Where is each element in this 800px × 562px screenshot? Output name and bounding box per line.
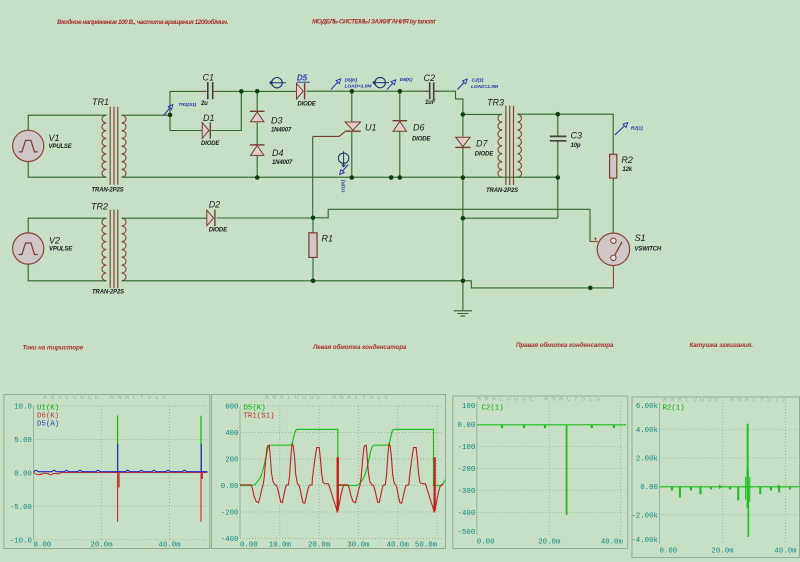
diode D6 (393, 121, 432, 143)
svg-text:40.0m: 40.0m (774, 548, 797, 556)
svg-text:U1(K): U1(K) (37, 405, 59, 413)
svg-text:VPULSE: VPULSE (49, 247, 73, 253)
svg-text:D5(A): D5(A) (37, 421, 59, 429)
voltage probe C2(1) with load (458, 77, 499, 90)
svg-text:VPULSE: VPULSE (49, 144, 73, 150)
svg-text:D6(K): D6(K) (400, 77, 413, 83)
junction (398, 89, 403, 94)
wire R1 node step up to S1 plus terminal (313, 209, 590, 241)
ground (454, 311, 472, 316)
svg-text:D4: D4 (272, 148, 284, 158)
svg-text:1N4007: 1N4007 (271, 127, 292, 133)
diode D5 (highlighted designator) (297, 74, 317, 108)
junction (556, 175, 561, 180)
svg-text:0.00: 0.00 (34, 542, 52, 550)
svg-text:LOAD=1.0M: LOAD=1.0M (345, 83, 373, 89)
svg-text:D5(K): D5(K) (345, 77, 358, 83)
svg-text:40.0m: 40.0m (601, 539, 624, 547)
wire D1 branch: down from TR1 node, through D1 to C1 right (170, 91, 241, 130)
resistor R2 value 12k (610, 154, 633, 178)
voltage probe TR1(S1) (164, 102, 197, 116)
svg-text:-400: -400 (221, 536, 239, 544)
svg-text:0.00: 0.00 (221, 483, 239, 491)
svg-text:-200: -200 (458, 466, 476, 474)
svg-text:400: 400 (225, 430, 238, 438)
svg-text:TR2: TR2 (91, 202, 108, 212)
svg-text:TR1(S1): TR1(S1) (244, 413, 275, 421)
svg-text:R2: R2 (621, 155, 633, 165)
svg-text:10.0m: 10.0m (269, 542, 292, 550)
svg-text:+: + (594, 236, 598, 243)
plot 4: R2(1) waveform (632, 397, 800, 558)
svg-text:TR3: TR3 (487, 98, 504, 108)
wire C1 right to D5 anode (top rail) (219, 90, 297, 92)
svg-text:5.00: 5.00 (14, 437, 32, 445)
svg-text:20.0m: 20.0m (308, 542, 331, 550)
svg-text:C3: C3 (571, 131, 583, 141)
svg-text:U1(K): U1(K) (341, 179, 347, 192)
wire D2 cathode to R1 node (217, 217, 314, 219)
svg-text:0.00: 0.00 (477, 539, 495, 547)
junction (461, 112, 466, 117)
wire D7 verticals (462, 114, 464, 177)
wire TR2 primary top from V2 (28, 218, 106, 233)
svg-text:DIODE: DIODE (297, 101, 316, 107)
voltage source V1 (VPULSE) (13, 130, 73, 161)
plot 1: thyristor currents U1(K) D6(K) D5(A) (4, 395, 210, 549)
svg-text:200: 200 (225, 457, 238, 465)
wire TR1 secondary top to node with probe, up to C1 rail (122, 91, 202, 115)
svg-text:ANALOGUE ANALYSIS: ANALOGUE ANALYSIS (265, 394, 392, 402)
svg-text:DIODE: DIODE (412, 136, 431, 142)
svg-text:V1: V1 (49, 133, 60, 143)
svg-text:1uF: 1uF (425, 100, 436, 106)
capacitor C3 value 10p (550, 131, 582, 150)
wire S1 bottom contact down (612, 263, 614, 288)
svg-text:-4.00k: -4.00k (631, 537, 658, 545)
junction (461, 279, 466, 284)
junction (350, 175, 355, 180)
junction (311, 279, 316, 284)
svg-text:20.0m: 20.0m (711, 548, 734, 556)
wire lower rail y218 from ground vertical to TR3 drop (463, 217, 558, 219)
svg-text:Токи на тиристоре: Токи на тиристоре (23, 344, 84, 351)
resistor R1 (309, 233, 333, 258)
wire R2 bottom to S1 top contact (612, 178, 614, 236)
svg-text:-400: -400 (458, 510, 476, 518)
diode D3 value 1N4007 (250, 111, 292, 133)
svg-text:100: 100 (462, 403, 475, 411)
svg-text:D2: D2 (209, 200, 221, 210)
wire C3 verticals (557, 114, 559, 177)
svg-text:0.00: 0.00 (458, 422, 476, 430)
transformer TR2 (91, 202, 126, 296)
svg-text:TRAN-2P2S: TRAN-2P2S (92, 188, 124, 194)
capacitor C2 value 1uF (424, 73, 440, 106)
diode D2 (207, 200, 228, 234)
wire C2 right with jog down to TR3 node (434, 91, 463, 114)
junction (239, 89, 244, 94)
svg-text:Правая обмотка конденсатора: Правая обмотка конденсатора (516, 341, 614, 349)
junction (556, 112, 561, 117)
svg-text:40.0m: 40.0m (158, 542, 181, 550)
svg-text:D5: D5 (297, 74, 308, 83)
svg-text:4.00k: 4.00k (636, 427, 659, 435)
svg-text:ANALOGUE ANALYSIS: ANALOGUE ANALYSIS (43, 394, 170, 402)
svg-text:ANALOGUE ANALYSIS: ANALOGUE ANALYSIS (663, 397, 790, 405)
svg-text:2u: 2u (200, 101, 208, 107)
junction (255, 175, 260, 180)
svg-text:VSWITCH: VSWITCH (635, 246, 662, 252)
svg-text:D3: D3 (271, 116, 283, 126)
svg-text:D6: D6 (413, 123, 425, 133)
svg-text:D6(K): D6(K) (37, 413, 59, 421)
svg-text:10.0: 10.0 (14, 404, 32, 412)
wire ground vertical through junctions (462, 178, 464, 311)
transformer TR3 (486, 98, 521, 195)
svg-text:Катушка зажигания.: Катушка зажигания. (690, 342, 754, 349)
wire TR2 primary bottom from V2 (28, 264, 106, 281)
svg-text:Левая обмотка конденсатора: Левая обмотка конденсатора (312, 343, 407, 351)
junction (461, 216, 466, 221)
svg-text:TRAN-2P2S: TRAN-2P2S (92, 290, 124, 296)
svg-text:-300: -300 (458, 488, 476, 496)
svg-text:C1: C1 (203, 73, 215, 83)
svg-text:C2(1): C2(1) (482, 405, 504, 413)
svg-text:-10.0: -10.0 (10, 537, 32, 545)
voltage probe D5(K) with load (331, 77, 372, 89)
svg-text:2.00k: 2.00k (636, 455, 659, 463)
current probe at D6 node (373, 77, 389, 87)
junction (168, 113, 173, 118)
wire D5 cathode to U1 anode node to D6 node (307, 90, 430, 92)
voltage probe R2(1) (615, 123, 643, 135)
plot 2: D5(K) and TR1(S1) waveforms (211, 395, 445, 549)
wire TR2 secondary top to D2 (122, 217, 207, 219)
wire TR2 secondary bottom rail (122, 280, 463, 282)
svg-text:TR1: TR1 (92, 97, 109, 107)
svg-text:-100: -100 (458, 444, 476, 452)
wire U1 anode / cathode verticals (351, 91, 353, 177)
svg-text:-200: -200 (221, 510, 239, 518)
diode D1 (201, 113, 220, 147)
svg-text:0.00: 0.00 (14, 471, 32, 479)
svg-text:R2(1): R2(1) (631, 126, 643, 132)
svg-text:12k: 12k (622, 167, 632, 173)
svg-text:LOAD=1.0M: LOAD=1.0M (471, 84, 499, 90)
svg-text:R2(1): R2(1) (663, 405, 685, 413)
svg-text:0.00: 0.00 (660, 548, 678, 556)
svg-text:D1: D1 (203, 113, 215, 123)
voltage probe D6(K) (387, 77, 413, 90)
svg-text:TRAN-2P2S: TRAN-2P2S (486, 188, 518, 194)
svg-text:-2.00k: -2.00k (631, 512, 658, 520)
voltage source V2 (VPULSE) (13, 233, 74, 264)
transformer TR1 (92, 97, 127, 194)
wire V1 top to TR1 primary (28, 115, 106, 130)
wire TR3 bottom right to lower rail at y218 (557, 178, 559, 219)
junction (311, 216, 316, 221)
diode D7 (455, 137, 494, 157)
svg-text:50.0m: 50.0m (415, 542, 438, 550)
svg-text:TR1(S1): TR1(S1) (178, 102, 196, 108)
junction (461, 175, 466, 180)
junction (398, 175, 403, 180)
svg-text:6.00k: 6.00k (636, 403, 659, 411)
svg-text:V2: V2 (49, 236, 60, 246)
junction (350, 89, 355, 94)
junction (588, 286, 593, 291)
junction (255, 89, 260, 94)
wire D6 verticals (399, 91, 401, 177)
svg-text:U1: U1 (365, 123, 377, 133)
svg-text:DIODE: DIODE (475, 151, 494, 157)
diode D4 value 1N4007 (250, 145, 293, 166)
switch S1 (VSWITCH) (590, 233, 662, 266)
svg-text:0.00: 0.00 (640, 484, 658, 492)
thyristor U1 (313, 122, 377, 136)
svg-text:600: 600 (225, 404, 238, 412)
svg-text:МОДЕЛЬ СИСТЕМЫ ЗАЖИГАНИЯ by t: МОДЕЛЬ СИСТЕМЫ ЗАЖИГАНИЯ by tancist (312, 19, 436, 26)
svg-text:40.0m: 40.0m (387, 542, 410, 550)
wire V1 bottom to TR1 primary (28, 162, 106, 178)
svg-text:ANALOGUE ANALYSIS: ANALOGUE ANALYSIS (477, 396, 604, 404)
wire TR3 top-right to R2 branch (517, 114, 613, 154)
junction (389, 175, 394, 180)
current probe D5(A) (270, 78, 286, 88)
svg-text:DIODE: DIODE (201, 141, 220, 147)
wire R1 vertical pins (312, 218, 314, 281)
svg-text:0.00: 0.00 (240, 542, 258, 550)
svg-text:-500: -500 (458, 529, 476, 537)
svg-text:Входное напряжение 100 В., час: Входное напряжение 100 В., частота враще… (57, 18, 229, 26)
svg-text:C2(1): C2(1) (472, 77, 484, 83)
svg-text:10p: 10p (571, 143, 581, 149)
svg-text:20.0m: 20.0m (538, 539, 561, 547)
current probe U1(K) vertical with probe arrow and rotated label (338, 151, 348, 192)
svg-text:S1: S1 (635, 233, 646, 243)
svg-text:1N4007: 1N4007 (272, 160, 293, 166)
wire D3/D4 chain verticals (256, 91, 258, 177)
wire U1 gate down to R1 node (312, 136, 314, 217)
svg-text:30.0m: 30.0m (347, 542, 370, 550)
capacitor C1 (200, 73, 219, 107)
svg-text:20.0m: 20.0m (90, 542, 113, 550)
svg-text:D5(K): D5(K) (244, 405, 266, 413)
wire TR3 top-left pin (463, 113, 502, 115)
wire bottom rail step down to S1 bottom (463, 281, 614, 288)
svg-text:D7: D7 (476, 139, 488, 149)
wire TR1 secondary bottom to bottom rail (122, 176, 558, 178)
svg-text:C2: C2 (424, 73, 436, 83)
svg-text:R1: R1 (322, 234, 334, 244)
svg-text:-5.00: -5.00 (10, 504, 32, 512)
plot 3: C2(1) waveform (453, 396, 628, 549)
svg-text:DIODE: DIODE (209, 228, 228, 234)
